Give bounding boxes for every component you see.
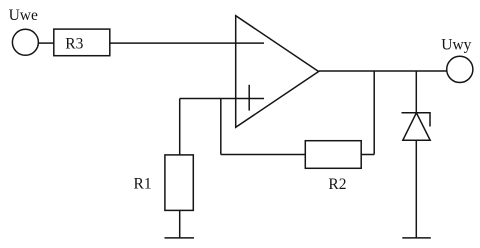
svg-text:R3: R3 [65, 36, 83, 53]
ground (under D1) [402, 237, 431, 239]
resistor R3 [54, 29, 110, 56]
resistor R2 [305, 141, 361, 169]
op-amp U1 [236, 16, 319, 128]
output terminal Uwy [447, 56, 473, 82]
wire: R1 to ground [179, 210, 181, 238]
resistor R1 [165, 155, 193, 211]
wire: non-inverting input line [180, 98, 264, 100]
wire: feedback horizontal to R2 [221, 154, 305, 156]
wire: feedback node down from non-inverting input [220, 99, 222, 155]
wire: node down to R1 [179, 99, 181, 155]
wire: op-amp output to Uwy terminal [319, 70, 447, 72]
zener diode D1 cathode bar [402, 113, 431, 127]
svg-text:R2: R2 [328, 176, 346, 193]
ground (under R1) [165, 237, 195, 239]
zener diode D1 anode triangle [403, 113, 430, 141]
input terminal Uwe [12, 29, 38, 55]
svg-text:R1: R1 [134, 176, 152, 193]
wire: zener to ground [415, 140, 417, 238]
wire: R2 to feedback riser [361, 154, 374, 156]
svg-text:Uwe: Uwe [9, 7, 38, 24]
svg-text:Uwy: Uwy [441, 37, 471, 54]
op-amp non-inverting input marker (+) [248, 85, 250, 111]
wire: Uwe terminal to R3 [39, 42, 54, 44]
wire: feedback riser to output [373, 71, 375, 155]
wire: output node down to zener [415, 71, 417, 113]
wire: R3 to op-amp inverting input (line extends inside as minus) [110, 42, 264, 44]
